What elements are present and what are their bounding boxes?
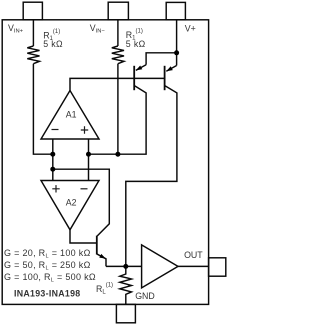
pin OUT — [209, 258, 226, 276]
transistor Q3 emitter — [97, 254, 106, 266]
svg-text:A2: A2 — [66, 198, 77, 208]
wire Q3 emitter to buffer input — [106, 265, 142, 267]
transistor Q3 base bar — [96, 236, 98, 255]
node A1 inverting input — [50, 152, 55, 157]
A1 plus sign — [81, 126, 88, 133]
node feedback — [50, 167, 55, 172]
node A1 non-inverting input — [86, 152, 91, 157]
output buffer amplifier — [142, 245, 178, 288]
transistor Q1 base bar — [133, 66, 135, 90]
svg-text:OUT: OUT — [184, 250, 203, 260]
transistor Q1 emitter arrowhead — [136, 66, 143, 71]
wire V+ emitter rail — [146, 53, 177, 66]
wire buffer output to OUT pin — [178, 265, 209, 267]
wire A1 output to Q1 Q2 bases — [70, 78, 165, 90]
transistor Q2 emitter — [166, 66, 176, 72]
resistor RL — [120, 266, 132, 304]
IC body outline — [2, 20, 208, 305]
node V+ rail junction — [174, 50, 179, 55]
node VIN- sense — [115, 152, 120, 157]
svg-text:A1: A1 — [66, 110, 77, 120]
svg-text:5 kΩ: 5 kΩ — [126, 39, 146, 49]
wire feedback node to Q3 collector — [53, 169, 110, 236]
wire A1 inverting input to A2 non-inverting input — [52, 139, 54, 181]
op-amp A1 — [41, 91, 99, 140]
wire A1 non-inverting input to A2 inverting input — [88, 139, 90, 181]
transistor Q2 base bar — [164, 66, 166, 90]
svg-text:5 kΩ: 5 kΩ — [43, 39, 63, 49]
svg-text:GND: GND — [135, 291, 155, 301]
wire R1 bottom to A1 non-inverting node — [117, 64, 119, 155]
wire V+ pin down to emitter rail — [176, 20, 178, 53]
transistor Q2 emitter arrowhead — [166, 66, 173, 71]
pin V+ — [166, 2, 185, 19]
pin VIN- — [108, 2, 128, 20]
node output summing — [123, 264, 128, 269]
wire R1 bottom to A1 inverting node — [33, 64, 52, 155]
op-amp A2 — [41, 181, 99, 230]
A2 minus sign — [81, 188, 88, 190]
A2 plus sign — [52, 185, 59, 192]
A1 minus sign — [52, 129, 59, 131]
wire A2 output to Q3 base — [70, 230, 97, 243]
wire Q1 collector to A1 non-inverting node — [89, 86, 147, 154]
svg-text:V+: V+ — [185, 23, 196, 33]
resistor R1 (VIN- side) — [112, 46, 124, 64]
resistor R1 (VIN+ side) — [27, 46, 39, 64]
svg-text:INA193-INA198: INA193-INA198 — [14, 289, 80, 299]
transistor Q1 emitter — [136, 65, 146, 71]
svg-text:G = 100, RL = 500 kΩ: G = 100, RL = 500 kΩ — [4, 272, 96, 284]
wire VIN- pin to R1 — [117, 20, 119, 46]
transistor Q3 emitter arrowhead — [99, 254, 106, 259]
wire VIN+ pin to R1 — [32, 20, 34, 46]
pin GND — [116, 304, 135, 322]
wire Q2 collector down to output node — [126, 86, 177, 267]
pin VIN+ — [23, 2, 42, 20]
